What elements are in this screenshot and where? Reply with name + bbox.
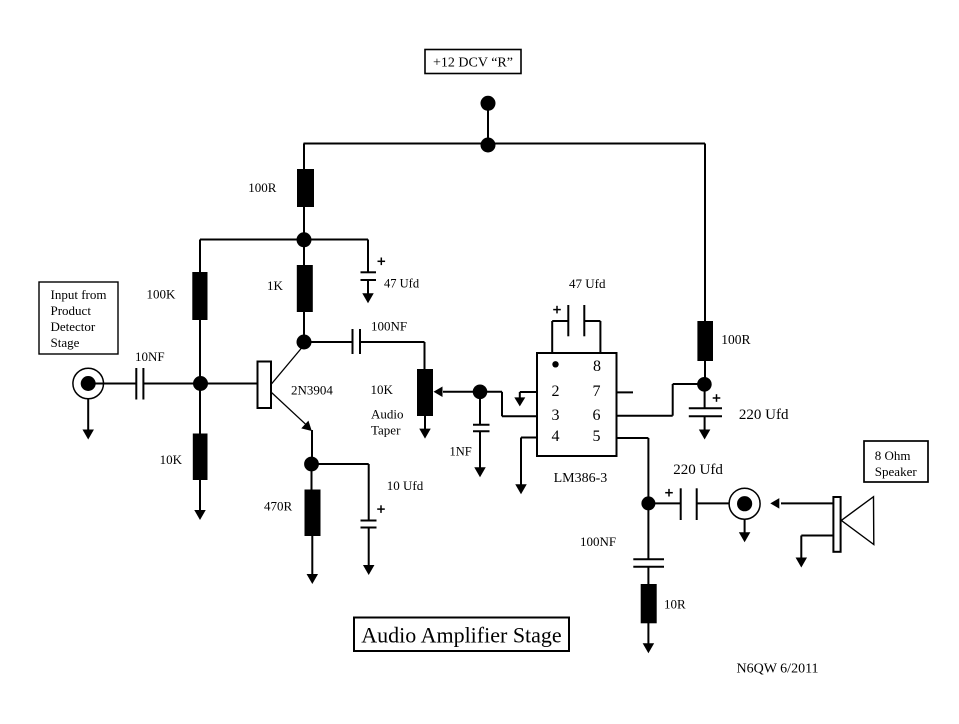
svg-text:220 Ufd: 220 Ufd [739,407,789,423]
svg-text:Stage: Stage [51,335,80,350]
svg-text:3: 3 [552,407,560,424]
svg-text:+12 DCV “R”: +12 DCV “R” [433,56,513,71]
svg-text:10 Ufd: 10 Ufd [387,478,424,493]
svg-text:470R: 470R [264,499,293,514]
svg-text:100NF: 100NF [371,319,407,334]
svg-text:100R: 100R [721,332,750,347]
svg-text:2: 2 [552,383,560,400]
svg-text:100K: 100K [147,287,177,302]
svg-text:7: 7 [593,383,601,400]
svg-text:5: 5 [593,428,601,445]
svg-text:Audio: Audio [371,406,404,421]
svg-text:100R: 100R [248,180,276,195]
svg-text:2N3904: 2N3904 [291,382,333,397]
svg-text:8 Ohm: 8 Ohm [875,448,911,463]
svg-text:47 Ufd: 47 Ufd [384,277,420,291]
svg-text:10K: 10K [160,452,183,467]
svg-text:220 Ufd: 220 Ufd [673,462,723,478]
svg-text:Speaker: Speaker [875,464,918,479]
svg-text:10R: 10R [664,596,686,611]
svg-text:47 Ufd: 47 Ufd [569,276,606,291]
svg-text:8: 8 [593,358,601,375]
svg-text:Input from: Input from [51,287,107,302]
svg-text:100NF: 100NF [580,534,616,549]
svg-text:1NF: 1NF [450,444,472,458]
svg-text:10NF: 10NF [135,349,165,364]
svg-text:4: 4 [552,428,560,445]
svg-text:6: 6 [593,407,601,424]
svg-text:10K: 10K [371,382,394,397]
svg-text:N6QW 6/2011: N6QW 6/2011 [737,662,819,677]
svg-text:1K: 1K [267,278,284,293]
svg-text:LM386-3: LM386-3 [554,471,608,486]
svg-text:Product: Product [51,303,92,318]
svg-text:Detector: Detector [51,319,96,334]
svg-text:Taper: Taper [371,422,401,437]
svg-text:Audio Amplifier Stage: Audio Amplifier Stage [361,623,561,648]
